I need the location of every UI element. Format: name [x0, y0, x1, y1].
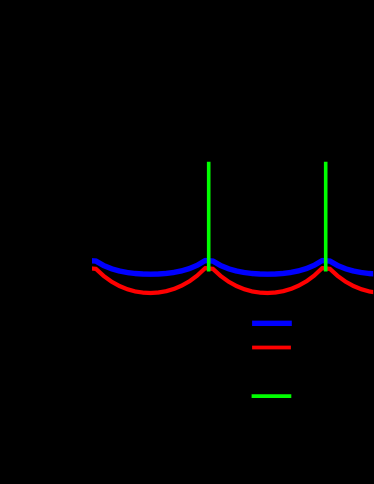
green spike 1: [207, 162, 211, 272]
green spike 2: [324, 162, 328, 272]
red curve: [80, 268, 374, 293]
legend blue line: [252, 321, 292, 326]
legend green line: [252, 394, 292, 398]
legend red line: [252, 346, 291, 350]
blue curve: [80, 261, 374, 275]
